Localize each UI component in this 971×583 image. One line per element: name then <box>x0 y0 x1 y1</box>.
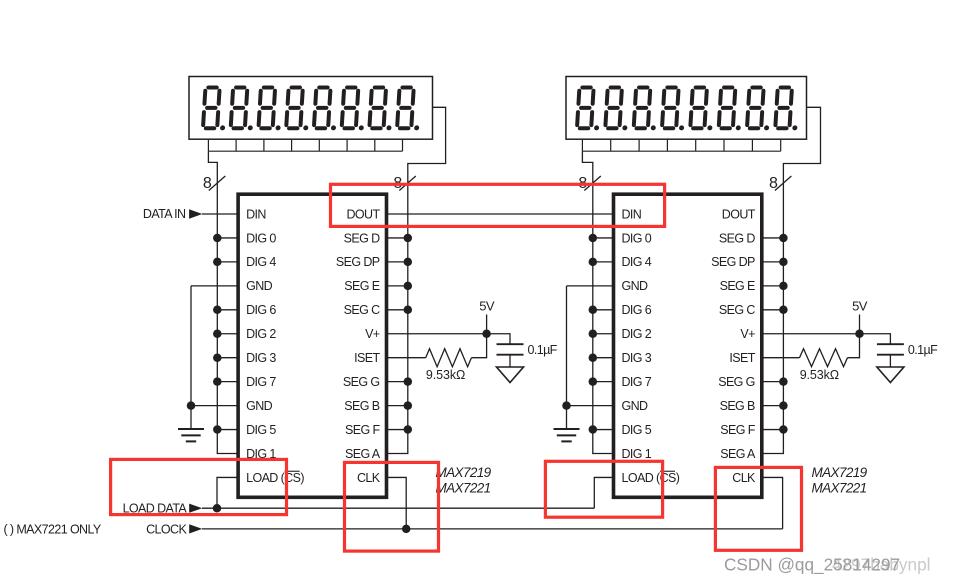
pin SEG E of U2 with stub and junction on SEG bus <box>720 279 788 293</box>
display DS1: 8-digit seven-segment LED module <box>189 77 433 140</box>
annotation highlight: CLK of U1 <box>345 462 439 551</box>
svg-text:SEG E: SEG E <box>720 279 755 293</box>
svg-text:DIG 3: DIG 3 <box>622 351 652 365</box>
annotation highlight: LOAD of U2 <box>545 461 662 517</box>
bus width marker "8" on DS2 digit bus <box>578 175 600 192</box>
junction GND rail / lower GND pin of U1 <box>187 401 196 410</box>
svg-text:SEG A: SEG A <box>720 447 756 461</box>
display DS1 digit 6 (8.) <box>342 88 367 131</box>
svg-text:5V: 5V <box>479 299 495 314</box>
pin DIN of U1 <box>246 207 266 221</box>
svg-text:V+: V+ <box>740 327 755 341</box>
wire CLOCK line to CLK pins <box>202 528 783 530</box>
svg-text:ISET: ISET <box>729 351 755 365</box>
wire SEG bus (U2 right side) <box>782 176 784 454</box>
pin CLK of U2 with stub to clock line <box>732 471 782 529</box>
pin SEG G of U1 with stub and junction on SEG bus <box>343 375 412 389</box>
wire DS1 digit-lines drop to DIG bus <box>208 151 217 176</box>
pin GND of U1 with wire to ground rail <box>191 399 273 413</box>
wire DOUT U1 to DIN U2 (daisy-chain data) <box>387 213 614 215</box>
svg-text:SEG A: SEG A <box>345 447 381 461</box>
pin SEG B of U1 with stub and junction on SEG bus <box>344 399 412 413</box>
svg-text:SEG E: SEG E <box>344 279 379 293</box>
pin CLK of U1 with stub to clock line <box>357 471 406 529</box>
display DS2 digit 7 (8.) <box>747 88 772 131</box>
pin DIG 5 of U2 with stub and junction on DIG bus <box>589 423 652 437</box>
wire V+ of U2 to 5V node <box>762 333 860 335</box>
annotation highlight: DOUT to DIN link <box>331 184 665 226</box>
svg-text:GND: GND <box>246 399 273 413</box>
pin DIG 0 of U2 with stub and junction on DIG bus <box>589 231 652 245</box>
pin SEG D of U1 with stub and junction on SEG bus <box>344 231 412 245</box>
wire SEG bus (U1 right side) <box>407 176 409 454</box>
pin DIN of U2 <box>622 207 642 221</box>
svg-text:LOAD (CS): LOAD (CS) <box>622 471 680 485</box>
ground symbol of U2 <box>554 429 580 441</box>
pin V+ of U2 <box>740 327 755 341</box>
arrow CLOCK <box>189 524 202 533</box>
svg-text:DIN: DIN <box>622 207 642 221</box>
svg-text:DIN: DIN <box>246 207 266 221</box>
arrow LOAD DATA <box>189 504 202 513</box>
pin SEG E of U1 with stub and junction on SEG bus <box>344 279 412 293</box>
svg-text:DIG 6: DIG 6 <box>246 303 276 317</box>
pin SEG C of U2 with stub and junction on SEG bus <box>719 303 788 317</box>
label MAX7219 / MAX7221 (U2) <box>812 465 868 496</box>
annotation highlight: CLK of U2 <box>715 467 801 550</box>
svg-text:0.1µF: 0.1µF <box>528 343 558 357</box>
display DS2: 8-digit seven-segment LED module <box>566 77 807 140</box>
junction LOAD line at U1 <box>213 504 222 513</box>
wire ISET of U2 to resistor <box>762 357 800 359</box>
bus width marker "8" on U1 segment bus <box>393 175 415 192</box>
svg-text:SEG DP: SEG DP <box>711 255 755 269</box>
svg-text:9.53kΩ: 9.53kΩ <box>800 368 839 382</box>
pin SEG F of U2 with stub and junction on SEG bus <box>720 423 787 437</box>
display DS2 digit 3 (8.) <box>634 88 659 131</box>
svg-text:DATA IN: DATA IN <box>143 207 186 221</box>
capacitor C 0.1uF (U1) <box>497 344 524 367</box>
wire DIG bus (U1 left side) <box>216 176 218 454</box>
svg-text:DIG 1: DIG 1 <box>622 447 652 461</box>
pin DIG 1 of U2: bus end turn <box>592 447 652 461</box>
svg-text:GND: GND <box>246 279 273 293</box>
wire 5V node to capacitor (U1) <box>487 334 510 344</box>
svg-text:DIG 5: DIG 5 <box>246 423 276 437</box>
svg-text:DIG 2: DIG 2 <box>246 327 276 341</box>
svg-text:ISET: ISET <box>354 351 380 365</box>
svg-text:MAX7219: MAX7219 <box>436 465 492 480</box>
svg-text:CLK: CLK <box>357 471 381 485</box>
annotation highlight: LOAD of U1 <box>111 459 287 514</box>
svg-text:DIG 5: DIG 5 <box>622 423 652 437</box>
svg-text:SEG F: SEG F <box>720 423 755 437</box>
power 5V flag (U2) <box>852 299 868 334</box>
junction 5V node (U1) <box>482 330 491 339</box>
pin SEG F of U1 with stub and junction on SEG bus <box>345 423 412 437</box>
svg-text:GND: GND <box>622 279 649 293</box>
svg-text:SEG G: SEG G <box>718 375 755 389</box>
wire DS1 segment-lines to SEG bus <box>408 107 446 176</box>
pin DIG 3 of U1 with stub and junction on DIG bus <box>213 351 276 365</box>
pin LOAD (CS) of U2 with stub to load line <box>594 471 679 508</box>
svg-text:DIG 0: DIG 0 <box>622 231 652 245</box>
junction CLOCK line at U1 <box>402 525 411 534</box>
svg-text:9.53kΩ: 9.53kΩ <box>426 368 465 382</box>
svg-text:DIG 7: DIG 7 <box>246 375 276 389</box>
svg-text:GND: GND <box>622 399 649 413</box>
display DS2 digit 1 (8.) <box>577 88 602 131</box>
svg-text:SEG B: SEG B <box>720 399 755 413</box>
svg-text:( ) MAX7221 ONLY: ( ) MAX7221 ONLY <box>4 522 102 536</box>
wire V+ of U1 to 5V node <box>387 333 487 335</box>
svg-text:SEG C: SEG C <box>344 303 380 317</box>
pin DIG 6 of U1 with stub and junction on DIG bus <box>213 303 276 317</box>
svg-text:SEG D: SEG D <box>344 231 380 245</box>
ground symbol of U1 <box>178 429 204 441</box>
svg-text:DIG 7: DIG 7 <box>622 375 652 389</box>
wire DATA IN to DIN (U1) <box>202 213 238 215</box>
wire 5V node to capacitor (U2) <box>860 334 891 344</box>
wire DS2 digit-lines drop to DIG bus <box>582 151 592 176</box>
pin DIG 6 of U2 with stub and junction on DIG bus <box>589 303 652 317</box>
svg-text:MAX7221: MAX7221 <box>812 481 867 496</box>
pin DIG 3 of U2 with stub and junction on DIG bus <box>589 351 652 365</box>
wire GND rail of U2 <box>566 286 568 429</box>
pin GND of U2 with wire to ground rail <box>567 279 649 293</box>
pin DIG 4 of U1 with stub and junction on DIG bus <box>213 255 276 269</box>
svg-text:8: 8 <box>203 175 212 192</box>
display DS1 digit 3 (8.) <box>258 88 283 131</box>
svg-text:MAX7221: MAX7221 <box>436 481 491 496</box>
junction 5V node (U2) <box>855 330 864 339</box>
bus width marker "8" on DS1 digit bus <box>203 175 225 192</box>
wire resistor to 5V node (U1) <box>471 334 486 358</box>
display DS1 connector comb <box>208 139 402 151</box>
display DS1 digit 1 (8.) <box>203 88 228 131</box>
svg-text:SEG C: SEG C <box>719 303 755 317</box>
display DS1 digit 8 (8.) <box>397 88 422 131</box>
svg-text:0.1µF: 0.1µF <box>908 343 938 357</box>
bus width marker "8" on U2 segment bus <box>769 175 791 192</box>
pin LOAD (CS) of U1 with stub to load line <box>217 471 304 508</box>
display DS1 digit 5 (8.) <box>314 88 339 131</box>
pin DOUT of U1 <box>346 207 380 221</box>
ground symbol (capacitor of U2) <box>877 367 904 383</box>
wire DS2 segment-lines to SEG bus <box>783 107 820 176</box>
svg-text:DIG 4: DIG 4 <box>246 255 276 269</box>
svg-text:CLK: CLK <box>732 471 756 485</box>
resistor R 9.53k (U1) <box>426 349 472 367</box>
display DS2 digit 8 (8.) <box>775 88 800 131</box>
svg-text:SEG G: SEG G <box>343 375 380 389</box>
wire DIG bus (U2 left side) <box>592 176 594 454</box>
pin SEG C of U1 with stub and junction on SEG bus <box>344 303 412 317</box>
pin SEG B of U2 with stub and junction on SEG bus <box>720 399 788 413</box>
pin DIG 7 of U1 with stub and junction on DIG bus <box>213 375 276 389</box>
IC U2 MAX7219/MAX7221 body <box>614 194 762 497</box>
pin V+ of U1 <box>365 327 380 341</box>
pin DIG 5 of U1 with stub and junction on DIG bus <box>213 423 276 437</box>
display DS1 digit 4 (8.) <box>286 88 311 131</box>
pin DOUT of U2 <box>722 207 756 221</box>
svg-text:SEG F: SEG F <box>345 423 380 437</box>
pin SEG A of U2: bus end turn <box>720 447 784 461</box>
svg-text:DOUT: DOUT <box>346 207 380 221</box>
wire LOAD DATA line to LOAD pins <box>202 507 594 509</box>
pin GND of U2 with wire to ground rail <box>567 399 649 413</box>
arrow DATA IN <box>189 209 202 218</box>
svg-text:SEG B: SEG B <box>344 399 379 413</box>
pin SEG A of U1: bus end turn <box>345 447 408 461</box>
pin SEG D of U2 with stub and junction on SEG bus <box>719 231 788 245</box>
wire resistor to 5V node (U2) <box>848 334 860 358</box>
svg-text:V+: V+ <box>365 327 380 341</box>
watermark CSDN user id <box>724 555 930 575</box>
svg-text:LOAD (CS): LOAD (CS) <box>246 471 304 485</box>
pin DIG 2 of U2 with stub and junction on DIG bus <box>589 327 652 341</box>
display DS2 digit 6 (8.) <box>719 88 744 131</box>
svg-text:DIG 2: DIG 2 <box>622 327 652 341</box>
svg-text:DIG 3: DIG 3 <box>246 351 276 365</box>
pin SEG DP of U1 with stub and junction on SEG bus <box>336 255 412 269</box>
svg-text:DOUT: DOUT <box>722 207 756 221</box>
wire GND rail of U1 <box>190 286 192 429</box>
display DS1 digit 2 (8.) <box>231 88 256 131</box>
power 5V flag (U1) <box>479 299 495 334</box>
svg-text:DIG 4: DIG 4 <box>622 255 652 269</box>
pin DIG 1 of U1: bus end turn <box>217 447 277 461</box>
IC U1 MAX7219/MAX7221 body <box>238 194 386 497</box>
pin DIG 2 of U1 with stub and junction on DIG bus <box>213 327 276 341</box>
pin DIG 7 of U2 with stub and junction on DIG bus <box>589 375 652 389</box>
pin ISET of U2 <box>729 351 755 365</box>
junction GND rail / lower GND pin of U2 <box>562 401 571 410</box>
pin DIG 0 of U1 with stub and junction on DIG bus <box>213 231 276 245</box>
display DS2 digit 5 (8.) <box>690 88 715 131</box>
capacitor C 0.1uF (U2) <box>877 344 904 367</box>
ground symbol (capacitor of U1) <box>497 367 524 383</box>
display DS2 digit 2 (8.) <box>605 88 630 131</box>
display DS2 connector comb <box>582 139 780 151</box>
svg-text:SEG D: SEG D <box>719 231 755 245</box>
label MAX7219 / MAX7221 (U1) <box>436 465 492 496</box>
svg-text:8: 8 <box>769 175 778 192</box>
display DS2 digit 4 (8.) <box>662 88 687 131</box>
pin GND of U1 with wire to ground rail <box>191 279 273 293</box>
resistor R 9.53k (U2) <box>800 349 848 367</box>
display DS1 digit 7 (8.) <box>369 88 394 131</box>
pin ISET of U1 <box>354 351 380 365</box>
svg-text:CLOCK: CLOCK <box>146 522 187 536</box>
pin SEG DP of U2 with stub and junction on SEG bus <box>711 255 787 269</box>
svg-text:SEG DP: SEG DP <box>336 255 380 269</box>
svg-text:5V: 5V <box>852 299 868 314</box>
wire ISET of U1 to resistor <box>387 357 426 359</box>
pin DIG 4 of U2 with stub and junction on DIG bus <box>589 255 652 269</box>
svg-text:CSDN @qq_25814297: CSDN @qq_25814297 <box>724 555 900 575</box>
svg-text:DIG 6: DIG 6 <box>622 303 652 317</box>
svg-text:MAX7219: MAX7219 <box>812 465 868 480</box>
pin SEG G of U2 with stub and junction on SEG bus <box>718 375 787 389</box>
svg-text:DIG 0: DIG 0 <box>246 231 276 245</box>
